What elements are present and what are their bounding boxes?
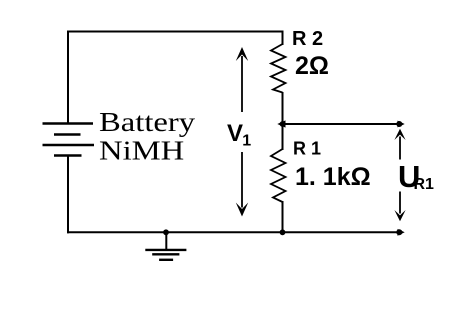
wire R1 bottom lead: [282, 201, 284, 232]
arrow UR1 up: [394, 129, 405, 160]
wire R2 top lead: [282, 31, 284, 46]
battery BT1: [43, 124, 95, 156]
arrow V1 up: [236, 47, 248, 112]
svg-text:Battery: Battery: [99, 108, 195, 138]
wire R2 bottom lead: [282, 92, 284, 125]
junction node middle right: [396, 121, 402, 127]
wire left vertical upper: [67, 31, 69, 124]
wire middle horizontal: [283, 123, 401, 125]
svg-text:V: V: [227, 120, 243, 147]
svg-text:2Ω: 2Ω: [295, 52, 329, 80]
wire R1 top lead: [282, 124, 284, 150]
svg-text:1: 1: [242, 132, 251, 149]
svg-text:R 2: R 2: [292, 28, 323, 50]
svg-text:R1: R1: [414, 176, 435, 193]
svg-text:NiMH: NiMH: [99, 136, 184, 166]
junction node bottom right: [396, 229, 402, 235]
resistor R2: [271, 44, 286, 93]
resistor R1: [271, 149, 286, 202]
wire top horizontal: [67, 31, 283, 33]
junction node between R2 and R1: [280, 121, 286, 127]
junction ground node: [163, 229, 169, 235]
svg-text:R 1: R 1: [293, 139, 321, 159]
arrow UR1 down: [394, 192, 405, 222]
ground: [145, 232, 186, 259]
svg-text:1. 1kΩ: 1. 1kΩ: [295, 163, 371, 191]
wire left vertical lower: [67, 156, 69, 234]
wire bottom horizontal: [67, 231, 400, 233]
junction node R1 bottom: [280, 229, 286, 235]
arrow V1 down: [236, 152, 248, 217]
